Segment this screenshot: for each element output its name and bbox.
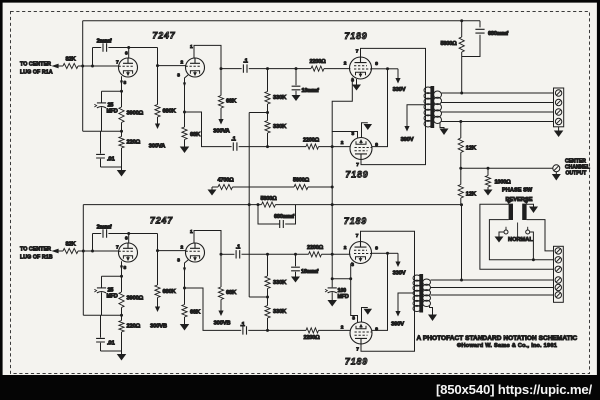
svg-text:300VB: 300VB: [150, 324, 167, 330]
wire vertical center link x249: [248, 113, 250, 298]
node junction bus right end: [460, 203, 463, 206]
tube V4B pentode 7189 inverted with pins 3,2,9,7: [350, 322, 372, 344]
node junction screens B: [386, 252, 389, 255]
svg-text:18mmf: 18mmf: [302, 88, 319, 94]
resistor 2200&#937; B1 grid stopper: [309, 252, 322, 257]
svg-text:12K: 12K: [466, 192, 477, 198]
resistor 12K upper: [460, 122, 462, 139]
node junction 330K mid B: [266, 296, 269, 299]
svg-text:MFD: MFD: [107, 294, 118, 300]
wire right bar top to ground: [527, 204, 534, 206]
svg-text:330K: 330K: [273, 95, 287, 101]
transformer T-A primary winding: [425, 91, 427, 124]
wire cathode B-7189-1 down: [351, 262, 358, 322]
wire plate B-7189-2 to transformer: [361, 308, 415, 351]
wire plate B2 to coupling junction: [194, 231, 221, 255]
terminal A3: [555, 109, 561, 115]
node junction plate B2 / .1 cap: [220, 253, 223, 256]
wire center bus A vertical: [82, 21, 84, 132]
wire center bus B vertical: [82, 205, 84, 316]
wire screen B junction: [372, 252, 388, 254]
ground 4700 ohm A: [211, 187, 213, 190]
capacitor 18mmf A: [295, 69, 297, 86]
capacitor .01 B: [100, 315, 102, 337]
capacitor 25 MFD A: [102, 90, 122, 92]
node junction 680K A: [156, 64, 159, 67]
ground cathode A2: [184, 140, 186, 147]
svg-text:MFD: MFD: [107, 109, 118, 115]
svg-text:2200Ω: 2200Ω: [307, 245, 324, 251]
svg-text:.01: .01: [107, 157, 115, 163]
resistor 2200&#937; A2 grid stopper: [306, 144, 319, 149]
resistor 5600&#937; B in bus: [262, 202, 276, 207]
resistor 12K lower: [460, 168, 462, 184]
wire feedback link A to bus: [249, 112, 267, 114]
svg-text:12K: 12K: [466, 146, 477, 152]
resistor 4700&#937; A: [212, 186, 218, 188]
tube V1B triode (7247) with pins 6,7,8: [119, 243, 138, 262]
wire center bus A top rail: [83, 20, 480, 22]
svg-text:300VA: 300VA: [213, 129, 230, 135]
terminal strip A (speaker A): [554, 88, 564, 127]
svg-text:2mmf: 2mmf: [97, 39, 112, 45]
wire grid A1: [78, 65, 119, 67]
resistor 330K A lower: [265, 121, 270, 134]
power 330V arrow (screens A): [388, 68, 399, 70]
wire cathode link A stepped: [332, 78, 357, 138]
terminal B3: [555, 266, 561, 272]
ground switch right: [529, 207, 538, 214]
power 300VA arrow (68K A): [220, 108, 222, 120]
wire left bar top to terminal 3: [480, 204, 554, 269]
node junction 330K mid A: [266, 111, 269, 114]
tube V3A pentode 7189 upper with pins 7,2,9,3: [350, 57, 372, 79]
svg-text:7247: 7247: [152, 31, 175, 41]
resistor 220&#937; B: [121, 315, 123, 320]
wire cathode B1: [121, 261, 123, 276]
terminal A4: [555, 118, 561, 124]
resistor 1000&#937;: [487, 168, 489, 175]
node junction 100MFD B: [331, 277, 334, 280]
node junction 330K chain B top: [266, 253, 269, 256]
svg-text:7189: 7189: [344, 216, 367, 226]
ground cathode network B: [121, 332, 123, 354]
capacitor 680mmf B branch: [258, 205, 296, 224]
svg-text:2200Ω: 2200Ω: [303, 335, 320, 341]
resistor 2200&#937; B2 grid stopper: [306, 328, 319, 333]
switch bar left (reverse contact): [509, 204, 513, 220]
svg-text:220Ω: 220Ω: [127, 324, 141, 330]
wire coupling drop to grid A2: [157, 48, 159, 66]
transformer T-B primary winding: [414, 279, 416, 308]
tube V2B triode phase splitter (7247) with pins 1,2,3: [186, 243, 205, 262]
tube V3B pentode 7189 upper with pins 7,2,9,3: [350, 242, 372, 264]
terminal A1: [555, 90, 561, 96]
wire left bar bottom to terminal 2: [489, 220, 553, 260]
svg-text:[850x540] https://upic.me/: [850x540] https://upic.me/: [436, 382, 593, 397]
ground cathode A-7189-1: [352, 85, 361, 91]
transformer T-B secondary winding: [423, 279, 431, 285]
node junction plate A1: [127, 46, 130, 49]
node junction cathode A2: [183, 111, 186, 114]
svg-text:2mmf: 2mmf: [97, 225, 112, 231]
svg-text:©Howard W. Sams & Co., Inc. 19: ©Howard W. Sams & Co., Inc. 1961: [457, 342, 557, 349]
svg-text:5600Ω: 5600Ω: [260, 196, 277, 202]
resistor 680K B: [157, 251, 159, 285]
node junction bus A / grid A1: [81, 65, 84, 68]
contact NORMAL right: [526, 230, 530, 234]
resistor 680K A: [157, 66, 159, 105]
wire screen A junction: [372, 68, 388, 70]
svg-text:68K: 68K: [226, 99, 237, 105]
svg-text:68K: 68K: [190, 310, 201, 316]
node junction 330K chain A top: [266, 67, 269, 70]
svg-text:LUG OF R1A: LUG OF R1A: [20, 70, 53, 76]
svg-text:7189: 7189: [345, 357, 368, 367]
svg-text:680K: 680K: [163, 109, 177, 115]
node junction cathode link B: [349, 277, 352, 280]
svg-text:82K: 82K: [65, 242, 76, 248]
ground T-B secondary bottom: [430, 306, 433, 315]
ground 1000 ohm: [487, 187, 489, 190]
terminal B6: [555, 292, 561, 298]
svg-text:68K: 68K: [190, 132, 201, 138]
node junction 330K chain B bottom: [267, 318, 269, 330]
tube V1A triode (7247) with pins 6,7,8: [119, 58, 138, 77]
wire screen drop A: [372, 69, 388, 147]
wire plate A-7189-1 to transformer: [361, 48, 426, 90]
node junction bus x249: [248, 203, 251, 206]
node junction bus B / grid B1: [82, 250, 85, 253]
svg-text:MFD: MFD: [338, 294, 349, 300]
transformer T-A secondary winding: [434, 91, 442, 98]
node junction bus x333: [331, 203, 334, 206]
wire input arrow A: [58, 65, 63, 67]
ground bracket B-7189-2: [362, 308, 368, 323]
node junction tap1 A: [460, 92, 463, 95]
svg-text:3900Ω: 3900Ω: [127, 296, 144, 302]
transformer T-A core: [430, 86, 434, 128]
capacitor 2mmf B: [92, 234, 94, 252]
contact NORMAL left: [504, 230, 508, 234]
wire coupling drop to grid B2: [157, 234, 159, 251]
wire center channel line: [461, 167, 553, 169]
ground cathode network A: [121, 148, 123, 170]
wire center bus B horizontal: [83, 204, 461, 206]
wire cathode A-7189-1 ground: [356, 79, 358, 85]
ground T-A secondary bottom: [440, 123, 444, 129]
svg-text:TO CENTER: TO CENTER: [20, 62, 51, 68]
node junction feedback A: [331, 186, 334, 189]
node junction cathode A1: [120, 90, 123, 93]
resistor 330K B lower: [265, 306, 270, 319]
terminal strip B (speaker B): [554, 246, 564, 302]
svg-text:680mmf: 680mmf: [274, 214, 294, 220]
resistor 68K A plate load: [220, 69, 222, 96]
svg-text:5600Ω: 5600Ω: [440, 41, 457, 47]
svg-text:330K: 330K: [273, 309, 287, 315]
svg-text:330K: 330K: [273, 280, 287, 286]
wire T-B primary center tap / power 390V B: [398, 293, 415, 300]
wire splitter cathode output B: [185, 288, 242, 330]
wire plate A2 to coupling junction: [194, 45, 221, 68]
wire vertical B x331 from bus: [331, 205, 333, 288]
resistor 82K B: [63, 248, 78, 253]
capacitor 100 MFD B electrolytic: [328, 287, 337, 289]
resistor 82K A: [63, 63, 78, 68]
wire 100MFD link B: [332, 278, 351, 280]
wire feedback drop B to tap: [461, 205, 463, 280]
svg-text:300VB: 300VB: [214, 321, 231, 327]
terminal B2: [555, 257, 561, 263]
wire cathode A1: [121, 76, 123, 91]
resistor 220&#937; A: [121, 131, 123, 136]
svg-text:PHASE SW: PHASE SW: [502, 188, 533, 194]
svg-text:68K: 68K: [226, 290, 237, 296]
svg-text:680K: 680K: [163, 289, 177, 295]
node junction center channel: [459, 167, 462, 170]
node junction 330K chain A bottom: [267, 133, 269, 147]
node junction tap4 A / 12K: [459, 120, 462, 123]
capacitor .1 B upper coupling: [221, 253, 234, 255]
svg-text:2200Ω: 2200Ω: [303, 138, 320, 144]
capacitor .1 A lower coupling: [233, 142, 237, 150]
ground 18mmf B: [291, 277, 300, 283]
svg-text:A PHOTOFACT STANDARD NOTATI: A PHOTOFACT STANDARD NOTATION SCHEMATIC: [417, 335, 578, 342]
ground bracket A-7189-2: [362, 123, 368, 138]
terminal A2: [555, 99, 561, 105]
resistor 330K B upper: [267, 254, 269, 276]
jack CENTER CHANNEL OUTPUT: [553, 165, 560, 172]
tube V4A pentode 7189 inverted with pins 3,2,9,7: [350, 138, 372, 160]
power 300VB arrow (680K B): [157, 298, 159, 308]
terminal B4: [555, 277, 561, 283]
wire plate riser B1: [128, 234, 130, 244]
wire cathode A2: [185, 75, 189, 112]
svg-text:390V: 390V: [391, 322, 404, 328]
transformer T-B core: [419, 274, 423, 313]
capacitor 18mmf B: [295, 254, 297, 266]
capacitor 25 MFD B: [102, 275, 122, 277]
power 330V arrow (screens B): [388, 252, 399, 254]
wire plate B-7189-1 to transformer: [361, 231, 415, 279]
capacitor 2mmf A: [92, 48, 94, 67]
svg-text:7247: 7247: [150, 216, 173, 226]
svg-text:7189: 7189: [344, 31, 367, 41]
switch actuator: [517, 223, 519, 239]
wire T-A primary center tap / power 390V A: [407, 105, 426, 110]
svg-text:18mmf: 18mmf: [301, 269, 318, 275]
resistor 68K B cathode: [184, 288, 186, 305]
ground output jack: [555, 172, 557, 174]
wire plate A-7189-2 to transformer: [361, 124, 426, 165]
resistor 5600&#937; A feedback: [461, 21, 463, 37]
switch bar right (reverse contact): [522, 204, 526, 220]
svg-text:LUG OF R1B: LUG OF R1B: [20, 255, 53, 261]
svg-text:680mmf: 680mmf: [488, 31, 508, 37]
node junction cathode B2: [183, 287, 186, 290]
svg-text:7189: 7189: [345, 170, 368, 180]
wire right bar bottom to terminal 1: [527, 220, 554, 251]
ground cathode B2: [184, 317, 186, 324]
wire grid B2: [158, 250, 186, 252]
svg-text:1000Ω: 1000Ω: [495, 180, 512, 186]
resistor 68K A cathode: [184, 112, 186, 127]
svg-text:.01: .01: [107, 341, 115, 347]
svg-text:OUTPUT: OUTPUT: [566, 171, 587, 177]
node junction plate B1: [127, 232, 130, 235]
ground strip A: [558, 127, 560, 131]
capacitor .1 B lower coupling: [243, 326, 247, 334]
ground NORMAL left: [499, 232, 504, 237]
svg-text:TO CENTER: TO CENTER: [20, 247, 51, 253]
wire screen drop B: [372, 253, 388, 330]
svg-text:3900Ω: 3900Ω: [127, 111, 144, 117]
svg-text:330K: 330K: [273, 124, 287, 130]
resistor 3900&#937; B: [121, 276, 123, 292]
node junction cathode B1: [120, 275, 123, 278]
watermark bar: [0, 375, 600, 400]
capacitor .01 A: [100, 131, 102, 153]
wire feedback line A: [233, 186, 295, 188]
tube V2A triode phase splitter (7247) with pins 1,2,3: [186, 58, 205, 77]
resistor 5600&#937; A: [294, 184, 308, 189]
svg-text:330V: 330V: [393, 87, 406, 93]
svg-text:220Ω: 220Ω: [127, 140, 141, 146]
node junction 680K B: [156, 249, 159, 252]
node junction 3900/220 B: [120, 314, 123, 317]
ground 18mmf A: [292, 95, 301, 101]
node junction 18mmf B: [294, 253, 297, 256]
node junction bus/680mmf left: [257, 203, 260, 206]
wire feedback link B to bus: [249, 296, 267, 298]
resistor 68K B plate load: [220, 254, 222, 287]
node junction 18mmf A: [295, 67, 298, 70]
node junction 2mmf A riser: [91, 65, 94, 68]
node junction tap1 B: [460, 279, 463, 282]
node junction 2mmf B riser: [91, 250, 94, 253]
capacitor 680mmf A feedback: [479, 21, 481, 28]
terminal B1: [555, 248, 561, 254]
capacitor .1 A upper coupling: [221, 68, 242, 70]
node junction rail / 5600 A fb: [460, 19, 463, 22]
svg-text:5600Ω: 5600Ω: [293, 178, 310, 184]
resistor 3900&#937; A: [121, 91, 123, 107]
wire feedback drop A to tap: [461, 57, 463, 94]
resistor 2200&#937; A1 grid stopper: [311, 66, 324, 71]
svg-text:330V: 330V: [393, 271, 406, 277]
node junction screens A: [386, 67, 389, 70]
node junction 3900/220 A: [120, 130, 123, 133]
wire T-A secondary taps: [442, 92, 554, 94]
wire plate riser A1: [128, 48, 130, 59]
power 300VB arrow (68K B): [220, 300, 222, 312]
wire grid A2: [158, 65, 186, 67]
ground 100 MFD B: [327, 300, 337, 307]
wire NORMAL right to terminal 2 line: [530, 232, 534, 260]
wire input arrow B: [58, 250, 63, 252]
svg-text:NORMAL: NORMAL: [508, 237, 533, 243]
wire T-B secondary taps: [431, 279, 554, 281]
svg-text:300VA: 300VA: [149, 144, 166, 150]
svg-text:82K: 82K: [65, 57, 76, 63]
wire splitter cathode output A: [185, 112, 232, 147]
wire vertical feedback A x333: [331, 132, 333, 205]
wire cathode B2: [185, 260, 189, 288]
node junction 1000 ohm: [487, 167, 490, 170]
power 300VA arrow (680K A): [157, 117, 159, 125]
svg-text:390V: 390V: [401, 137, 414, 143]
svg-text:2200Ω: 2200Ω: [309, 59, 326, 65]
wire grid B1: [78, 250, 119, 252]
resistor 330K A upper: [267, 69, 269, 92]
terminal B5: [555, 284, 561, 290]
node junction plate A2 / .1 cap: [220, 67, 223, 70]
svg-text:4700Ω: 4700Ω: [217, 178, 234, 184]
